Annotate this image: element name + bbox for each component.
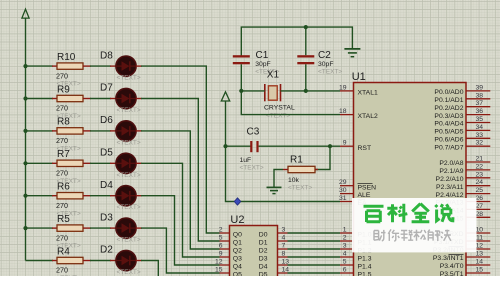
pin U1.30 (ALE) stub [340,193,354,195]
svg-text:C3: C3 [247,127,260,138]
svg-text:CRYSTAL: CRYSTAL [264,105,295,112]
pin U2.2 left stub [220,232,230,234]
ground (top right) [344,48,360,50]
pin U1.5 (P1.4) stub [340,264,354,266]
wire rail to R5 [26,227,54,229]
svg-text:36: 36 [475,108,483,115]
svg-text:270: 270 [56,201,68,210]
wire VCC to EA [226,101,341,202]
pin U1.4 (P1.3) stub [340,256,354,258]
wire R8 to D6 [83,130,91,132]
svg-text:29: 29 [339,179,347,186]
capacitor C2 [297,55,314,57]
LED D4 [116,186,136,206]
IC U1 (8051) [354,83,467,281]
pin U1.32 (P0.7/AD7) stub [466,145,490,147]
svg-text:P2.1/A9: P2.1/A9 [439,168,463,175]
svg-text:D5: D5 [100,148,113,159]
wire R1 to ground [274,170,283,188]
svg-text:D6: D6 [100,115,113,126]
wire D5 to U2 pin [136,162,142,164]
svg-text:P0.0/AD0: P0.0/AD0 [434,89,463,96]
svg-text:<TEXT>: <TEXT> [117,139,141,146]
svg-text:R4: R4 [57,246,70,257]
svg-text:<TEXT>: <TEXT> [288,184,312,191]
svg-text:RST: RST [358,145,372,152]
svg-text:270: 270 [56,71,68,80]
IC U2 [230,226,278,281]
svg-text:11: 11 [476,235,483,242]
svg-text:1uF: 1uF [240,157,252,164]
node marker (EA wire) [234,198,241,205]
svg-text:P3.5/T1: P3.5/T1 [440,271,464,276]
wire R9 to D7 [83,98,91,100]
svg-text:8: 8 [282,251,286,258]
svg-text:21: 21 [475,156,483,163]
ground (R1) [267,186,282,188]
svg-text:D1: D1 [259,240,268,247]
svg-text:12: 12 [215,259,223,266]
pin U1.26 (P2.5/A13) stub [466,201,490,203]
svg-text:1: 1 [343,227,347,234]
svg-text:P0.5/AD5: P0.5/AD5 [434,129,463,136]
svg-text:33: 33 [475,132,483,139]
wire D8 to U2 pin [136,65,142,67]
svg-text:P2.4/A12: P2.4/A12 [436,192,464,199]
wire U2.13 to U1.5 [288,264,341,266]
pin U1.34 (P0.5/AD5) stub [466,129,490,131]
LED D2 [116,250,136,270]
svg-text:28: 28 [475,211,483,218]
svg-text:22: 22 [475,163,483,170]
wire rail to R9 [26,98,54,100]
resistor R6 [57,193,83,199]
svg-text:15: 15 [215,267,223,274]
svg-text:270: 270 [56,266,68,275]
pin U1.12 (P3.2/INT0) stub [466,248,490,250]
capacitor C3 [226,145,252,147]
wire U2.3 to U1.1 [288,232,341,234]
junction VCC/C3 [223,144,227,148]
wire rail to R8 [26,130,54,132]
svg-text:D4: D4 [259,264,268,271]
svg-text:<TEXT>: <TEXT> [266,113,290,120]
junction RST/R1 [328,144,332,148]
svg-text:6: 6 [219,243,223,250]
pin U1.36 (P0.3/AD3) stub [466,114,490,116]
svg-text:30pF: 30pF [318,61,334,68]
svg-text:X1: X1 [267,70,280,81]
svg-text:P1.3: P1.3 [358,256,372,263]
svg-text:270: 270 [56,104,68,113]
svg-text:<TEXT>: <TEXT> [117,107,141,114]
svg-text:39: 39 [475,84,483,91]
svg-text:32: 32 [475,140,483,147]
svg-text:P0.3/AD3: P0.3/AD3 [434,113,463,120]
svg-text:Q4: Q4 [233,264,242,271]
svg-text:<TEXT>: <TEXT> [117,237,141,244]
svg-text:<TEXT>: <TEXT> [240,165,264,172]
pin U2.9 left stub [220,256,230,258]
svg-text:10: 10 [475,227,483,234]
svg-text:25: 25 [475,187,483,194]
wire R7 to D5 [83,162,91,164]
junction rail/R9 [23,96,27,100]
LED D6 [116,121,136,141]
svg-text:13: 13 [475,251,483,258]
watermark text 助你轻松解决 [374,229,451,241]
LED D8 [116,56,136,76]
svg-text:18: 18 [339,108,347,115]
svg-text:D3: D3 [259,256,268,263]
svg-text:5: 5 [343,259,347,266]
svg-text:P1.4: P1.4 [358,264,372,271]
pin U2.15 left stub [220,272,230,274]
svg-text:<TEXT>: <TEXT> [318,68,342,75]
svg-text:P2.0/A8: P2.0/A8 [439,160,463,167]
pin U1.39 (P0.0/AD0) stub [466,90,490,92]
wire rail to R7 [26,162,54,164]
svg-text:P0.4/AD4: P0.4/AD4 [434,121,463,128]
wire D4 to U2 pin [136,195,142,197]
svg-text:D2: D2 [100,245,113,256]
svg-text:3: 3 [343,243,347,250]
svg-text:30: 30 [339,187,347,194]
svg-text:23: 23 [475,171,483,178]
pin U1.28 (P2.7/A15) stub [466,216,490,218]
junction rail/R10 [23,64,27,68]
pin U1.1 (P1.0) stub [340,232,354,234]
pin U1.10 (P3.0/RXD) stub [466,232,490,234]
svg-text:<TEXT>: <TEXT> [117,204,141,211]
svg-text:R9: R9 [57,84,70,95]
pin U2.14 right stub [278,272,288,274]
svg-text:5: 5 [219,235,223,242]
junction C2/XTAL1 node [304,89,308,93]
power symbol VCC (EA/reset) [221,92,229,101]
svg-text:U2: U2 [230,214,244,226]
junction rail/R5 [23,226,27,230]
pin U2.12 left stub [220,264,230,266]
watermark text 百科全说 [364,204,453,223]
svg-text:P1.5: P1.5 [358,272,372,276]
svg-text:26: 26 [475,195,483,202]
svg-text:270: 270 [56,136,68,145]
svg-text:38: 38 [475,92,483,99]
wire R4 to D2 [83,260,91,262]
svg-text:30pF: 30pF [255,61,271,68]
pin U1.22 (P2.1/A9) stub [466,169,490,171]
crystal X1 [264,84,266,101]
LED D7 [116,88,136,108]
svg-text:3: 3 [282,227,286,234]
resistor R8 [57,128,83,134]
svg-text:15: 15 [475,267,483,274]
svg-text:Q0: Q0 [233,232,242,239]
capacitor C1 [233,55,250,57]
wire VCC rail vertical [25,18,27,260]
svg-text:34: 34 [475,124,483,131]
svg-text:4: 4 [343,251,347,258]
LED D5 [116,153,136,173]
pin U2.13 right stub [278,264,288,266]
svg-text:P0.7/AD7: P0.7/AD7 [434,144,463,151]
svg-text:24: 24 [475,179,483,186]
svg-text:27: 27 [475,203,483,210]
svg-text:P0.1/AD1: P0.1/AD1 [434,97,463,104]
wire XTAL2 node [241,91,340,115]
svg-text:C1: C1 [256,50,269,61]
junction rail/R8 [23,129,27,133]
watermark box [352,198,477,252]
pin U1.27 (P2.6/A14) stub [466,208,490,210]
pin U1.3 (P1.2) stub [340,248,354,250]
svg-text:270: 270 [56,233,68,242]
svg-text:P3.4/T0: P3.4/T0 [440,263,464,270]
pin U1.29 (PSEN) stub [340,185,354,187]
wire R5 to D3 [83,227,91,229]
svg-text:37: 37 [475,100,483,107]
pin U1.25 (P2.4/A12) stub [466,193,490,195]
svg-text:<TEXT>: <TEXT> [117,172,141,179]
svg-text:R5: R5 [57,214,70,225]
pin U1.15 (P3.5/T1) stub [466,272,490,274]
svg-text:P2.3/A11: P2.3/A11 [436,184,464,191]
pin U1.13 (P3.3/INT1) stub [466,256,490,258]
svg-text:PSEN: PSEN [358,184,377,191]
svg-text:Q1: Q1 [233,240,242,247]
wire rail to R6 [26,195,54,197]
pin U2.7 right stub [278,248,288,250]
wire R1 to RST [315,146,330,169]
svg-text:R10: R10 [57,52,76,63]
svg-text:10k: 10k [288,177,300,184]
junction C2/ground bus [304,25,308,29]
svg-text:14: 14 [475,259,483,266]
svg-text:6: 6 [343,267,347,274]
wire R10 to D8 [83,65,91,67]
pin U1.18 (XTAL2) stub [340,114,354,116]
wire rail to R4 [26,260,54,262]
svg-text:D3: D3 [100,212,113,223]
resistor R1 [288,166,315,172]
wire XTAL1 node [281,90,341,92]
svg-text:Q2: Q2 [233,248,242,255]
svg-text:D7: D7 [100,83,113,94]
svg-text:270: 270 [56,169,68,178]
svg-text:Q5: Q5 [233,272,242,276]
svg-text:U1: U1 [352,71,366,83]
wire U2.4 to U1.2 [288,240,341,242]
svg-text:19: 19 [339,84,347,91]
svg-text:P2.2/A10: P2.2/A10 [436,176,464,183]
svg-text:R7: R7 [57,149,70,160]
resistor R10 [57,63,83,69]
pin U2.6 left stub [220,248,230,250]
wire R6 to D4 [83,195,91,197]
svg-text:R1: R1 [290,155,303,166]
resistor R5 [57,225,83,231]
svg-text:31: 31 [339,195,347,202]
svg-text:P0.6/AD6: P0.6/AD6 [434,137,463,144]
junction rail/R7 [23,161,27,165]
pin U1.11 (P3.1/TXD) stub [466,240,490,242]
resistor R7 [57,160,83,166]
svg-text:4: 4 [282,235,286,242]
svg-text:D0: D0 [259,232,268,239]
svg-text:<TEXT>: <TEXT> [117,75,141,82]
svg-text:9: 9 [343,140,347,147]
svg-text:XTAL1: XTAL1 [358,90,378,97]
wire D7 to U2 pin [136,98,142,100]
wire D3 to U2 pin [136,227,142,229]
svg-text:D2: D2 [259,248,268,255]
junction rail/R6 [23,194,27,198]
wire D2 to U2 pin [136,260,142,262]
resistor R9 [57,95,83,101]
junction C1/XTAL2 node [239,89,243,93]
pin U2.5 left stub [220,240,230,242]
pin U2.4 right stub [278,240,288,242]
svg-text:12: 12 [475,243,483,250]
svg-text:P0.2/AD2: P0.2/AD2 [434,105,463,112]
pin U1.6 (P1.5) stub [340,272,354,274]
pin U1.35 (P0.4/AD4) stub [466,122,490,124]
pin U1.31 (EA) stub [340,201,354,203]
pin U1.33 (P0.6/AD6) stub [466,137,490,139]
pin U1.23 (P2.2/A10) stub [466,177,490,179]
pin U1.19 (XTAL1) stub [340,90,354,92]
svg-text:7: 7 [282,243,286,250]
svg-text:R8: R8 [57,117,70,128]
resistor R4 [57,257,83,263]
pin U2.3 right stub [278,232,288,234]
svg-text:2: 2 [219,227,223,234]
pin U1.24 (P2.3/A11) stub [466,185,490,187]
wire rail to R10 [26,65,54,67]
svg-text:Q3: Q3 [233,256,242,263]
svg-text:D5: D5 [259,272,268,276]
wire U2.14 to U1.6 [288,272,341,274]
svg-text:35: 35 [475,116,483,123]
pin U2.8 right stub [278,256,288,258]
pin U1.14 (P3.4/T0) stub [466,264,490,266]
pin U1.21 (P2.0/A8) stub [466,161,490,163]
wire U2.8 to U1.4 [288,256,341,258]
svg-text:P3.3/INT1: P3.3/INT1 [433,255,464,262]
pin U1.2 (P1.1) stub [340,240,354,242]
wire U2.7 to U1.3 [288,248,341,250]
svg-text:C2: C2 [318,50,331,61]
svg-text:D4: D4 [100,180,113,191]
power symbol VCC (left rail) [22,9,29,18]
svg-text:R6: R6 [57,182,70,193]
svg-text:<TEXT>: <TEXT> [117,269,141,276]
pin U1.38 (P0.1/AD1) stub [466,98,490,100]
svg-text:2: 2 [343,235,347,242]
wire D6 to U2 pin [136,130,142,132]
pin U1.37 (P0.2/AD2) stub [466,106,490,108]
pin U1.9 (RST) stub [340,145,354,147]
LED D3 [116,218,136,238]
svg-text:D8: D8 [100,50,113,61]
wire ground bus (top) [241,27,352,56]
svg-text:XTAL2: XTAL2 [358,113,378,120]
svg-text:9: 9 [219,251,223,258]
